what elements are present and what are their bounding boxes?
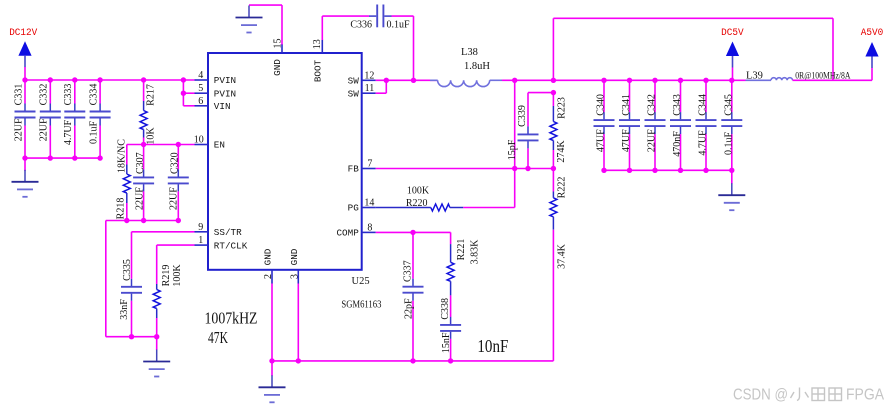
capacitor C345 0.1uF (721, 80, 742, 170)
svg-text:C345: C345 (723, 94, 734, 116)
svg-text:15pF: 15pF (507, 139, 518, 160)
ground at top (pin 15) (236, 6, 263, 33)
capacitor C336 0.1uF (bootstrap) (350, 5, 410, 31)
svg-text:C333: C333 (63, 84, 74, 106)
capacitor C341 47UF (619, 80, 640, 170)
capacitor C332 220UF (39, 80, 61, 158)
svg-text:L39: L39 (746, 70, 763, 81)
svg-text:1007kHZ: 1007kHZ (205, 308, 258, 327)
svg-text:R222: R222 (557, 177, 568, 199)
svg-text:PVIN: PVIN (214, 88, 236, 99)
svg-text:1: 1 (198, 235, 203, 246)
watermark (733, 387, 885, 404)
svg-text:C344: C344 (698, 94, 709, 116)
svg-text:R217: R217 (145, 84, 156, 106)
svg-text:C343: C343 (672, 94, 683, 116)
svg-text:274K: 274K (556, 140, 567, 163)
svg-text:6: 6 (198, 96, 203, 107)
pin 7 FB (348, 159, 376, 175)
svg-text:SW: SW (348, 76, 360, 87)
svg-text:5: 5 (198, 83, 203, 94)
svg-text:BOOT: BOOT (312, 59, 323, 82)
node DC5V (721, 27, 744, 80)
capacitor C340 47UF (594, 80, 615, 170)
svg-text:DC12V: DC12V (9, 27, 38, 39)
capacitor C344 4.7UF (696, 80, 717, 170)
wire: COMP net (376, 231, 451, 233)
resistor R217 10K (140, 80, 156, 145)
wire: C336 to SW node (392, 16, 414, 80)
svg-text:47UF: 47UF (621, 129, 632, 152)
svg-text:R219: R219 (161, 265, 172, 287)
svg-text:22UF: 22UF (647, 129, 658, 152)
pin 14 PG (348, 198, 376, 214)
resistor R219 100K (153, 264, 183, 337)
inductor L38 1.8uH (430, 47, 502, 87)
svg-text:3: 3 (289, 274, 300, 279)
svg-text:9: 9 (198, 222, 203, 233)
svg-text:CSDN @: CSDN @ (733, 387, 788, 404)
pin 4 PVIN (195, 70, 237, 86)
svg-text:22UF: 22UF (13, 118, 24, 141)
svg-text:22pF: 22pF (404, 298, 415, 319)
capacitor C331 220UF (13, 80, 35, 158)
svg-text:PVIN: PVIN (214, 75, 236, 86)
svg-text:L38: L38 (461, 47, 478, 58)
svg-text:0.1uF: 0.1uF (88, 121, 99, 145)
svg-text:R220: R220 (406, 198, 428, 209)
pin 9 SS/TR (195, 222, 243, 238)
svg-text:FPGA: FPGA (846, 387, 885, 404)
node A5V0 (861, 27, 884, 80)
svg-text:7: 7 (367, 159, 372, 170)
svg-text:15nF: 15nF (441, 332, 452, 353)
svg-text:R221: R221 (456, 239, 467, 261)
pin 5 PVIN (195, 83, 237, 99)
svg-text:47UF: 47UF (596, 129, 607, 152)
svg-text:0.1uF: 0.1uF (387, 20, 411, 31)
pin 10 EN (194, 135, 225, 151)
svg-text:14: 14 (364, 198, 374, 209)
op-amp U25 SGM61163 chip body (208, 53, 381, 311)
capacitor C339 15pF (feedforward) (507, 93, 553, 169)
capacitor C320 220UF (168, 145, 189, 221)
svg-text:13: 13 (312, 39, 323, 49)
svg-text:470nF: 470nF (672, 131, 683, 157)
resistor R223 274K (550, 93, 568, 169)
wire: L39 to A5V0 (793, 79, 873, 81)
svg-text:C320: C320 (169, 152, 180, 174)
pin 8 COMP (336, 222, 375, 238)
svg-text:R223: R223 (557, 97, 568, 119)
svg-text:37.4K: 37.4K (556, 243, 567, 269)
wire: pin 15 to top ground (249, 5, 282, 44)
svg-text:SW: SW (348, 88, 360, 99)
capacitor C334 0.1uF (88, 80, 110, 158)
svg-text:GND: GND (272, 59, 283, 76)
svg-text:C341: C341 (621, 94, 632, 116)
svg-text:4.7UF: 4.7UF (63, 119, 74, 145)
wire: riser to pins 5,6 (183, 80, 194, 106)
pin 12 SW (348, 70, 376, 86)
svg-text:R218: R218 (116, 198, 127, 220)
node DC12V (9, 27, 38, 80)
pin 2 GND bottom (263, 248, 274, 283)
svg-text:10K: 10K (145, 127, 156, 145)
svg-text:C336: C336 (350, 20, 372, 31)
svg-text:GND: GND (263, 248, 274, 265)
svg-text:C340: C340 (596, 94, 607, 116)
svg-text:C332: C332 (39, 84, 50, 106)
pin 15 GND top (272, 39, 283, 76)
wire: RT/CLK net (157, 245, 195, 284)
wire: output cap bottom bus (604, 169, 732, 171)
pin 11 SW (348, 83, 376, 99)
svg-text:VIN: VIN (214, 101, 231, 112)
wire: top bridge DC5V to A5V0 (553, 18, 833, 80)
svg-text:0.1uF: 0.1uF (723, 131, 734, 155)
wire: ground bus under chip (272, 284, 553, 361)
wire: EN net (127, 144, 195, 146)
svg-text:11: 11 (365, 83, 375, 94)
wire: input cap bottom bus (25, 157, 100, 159)
wire: EN filter bottom bus (106, 220, 179, 222)
wire: FB net (376, 168, 554, 170)
svg-text:C339: C339 (517, 105, 528, 127)
svg-text:C335: C335 (122, 259, 133, 281)
svg-text:COMP: COMP (336, 228, 359, 239)
svg-text:22UF: 22UF (39, 118, 50, 141)
pin 13 BOOT top (312, 39, 323, 82)
svg-text:C307: C307 (135, 152, 146, 174)
wire: SS/TR net (132, 232, 195, 279)
capacitor C307 220UF (133, 145, 154, 221)
svg-text:4: 4 (198, 70, 203, 81)
inductor L39 ferrite bead (746, 70, 851, 81)
svg-text:C334: C334 (88, 84, 99, 106)
ground under R219/C335 (143, 337, 170, 377)
svg-text:C331: C331 (13, 84, 24, 106)
pin 3 GND bottom (289, 248, 300, 283)
svg-text:3.83K: 3.83K (469, 239, 480, 265)
ground under C345 (718, 170, 745, 210)
svg-text:A5V0: A5V0 (861, 27, 884, 39)
svg-text:47K: 47K (208, 328, 228, 347)
svg-text:SGM61163: SGM61163 (341, 300, 381, 311)
svg-text:U25: U25 (352, 276, 370, 287)
pin 1 RT/CLK (195, 235, 248, 251)
svg-text:8: 8 (367, 222, 372, 233)
svg-text:22UF: 22UF (134, 187, 145, 210)
svg-text:12: 12 (364, 70, 374, 81)
svg-text:100K: 100K (172, 264, 183, 287)
capacitor C342 22UF (645, 80, 666, 170)
capacitor C335 33nF (119, 259, 142, 337)
resistor R220 100K (PG pullup) (376, 186, 515, 212)
pin 6 VIN (195, 96, 231, 112)
wire: BOOT to C336 (322, 16, 369, 40)
ground under pins 2,3 (259, 361, 286, 402)
svg-text:EN: EN (214, 140, 225, 151)
wire: DC5V rail from L38 (502, 79, 746, 81)
svg-text:FB: FB (348, 164, 360, 175)
capacitor C343 470nF (670, 80, 691, 170)
wire: DC12V input bus to pin 4 (25, 79, 195, 81)
svg-text:DC5V: DC5V (721, 27, 744, 39)
resistor R222 37.4K (550, 169, 568, 361)
svg-text:4.7UF: 4.7UF (698, 130, 709, 156)
svg-text:RT/CLK: RT/CLK (214, 240, 248, 251)
wire: SW node drop to FB/PG (514, 80, 516, 207)
svg-text:C337: C337 (403, 260, 414, 282)
wire: left drop to SS ground bus (106, 221, 157, 337)
svg-text:33nF: 33nF (119, 299, 130, 320)
svg-text:1.8uH: 1.8uH (464, 61, 490, 72)
svg-text:GND: GND (289, 248, 300, 265)
resistor R218 18K/NC (116, 139, 131, 221)
capacitor C333 4.7UF (63, 80, 85, 158)
svg-text:100K: 100K (407, 186, 430, 197)
ground under C331 (12, 158, 39, 197)
svg-text:10nF: 10nF (477, 336, 508, 356)
svg-text:22UF: 22UF (169, 187, 180, 210)
svg-text:PG: PG (348, 203, 359, 214)
svg-text:18K/NC: 18K/NC (116, 139, 127, 173)
resistor R221 3.83K (447, 232, 480, 317)
svg-text:C342: C342 (647, 94, 658, 116)
capacitor C337 22pF (403, 232, 424, 361)
svg-text:C338: C338 (440, 298, 451, 320)
wire: SW pins to inductor (376, 80, 438, 93)
capacitor C338 15nF (440, 298, 461, 361)
svg-text:SS/TR: SS/TR (214, 227, 242, 238)
svg-text:10: 10 (194, 135, 204, 146)
annotation 1007kHZ 47K (205, 308, 258, 347)
svg-text:2: 2 (263, 274, 274, 279)
